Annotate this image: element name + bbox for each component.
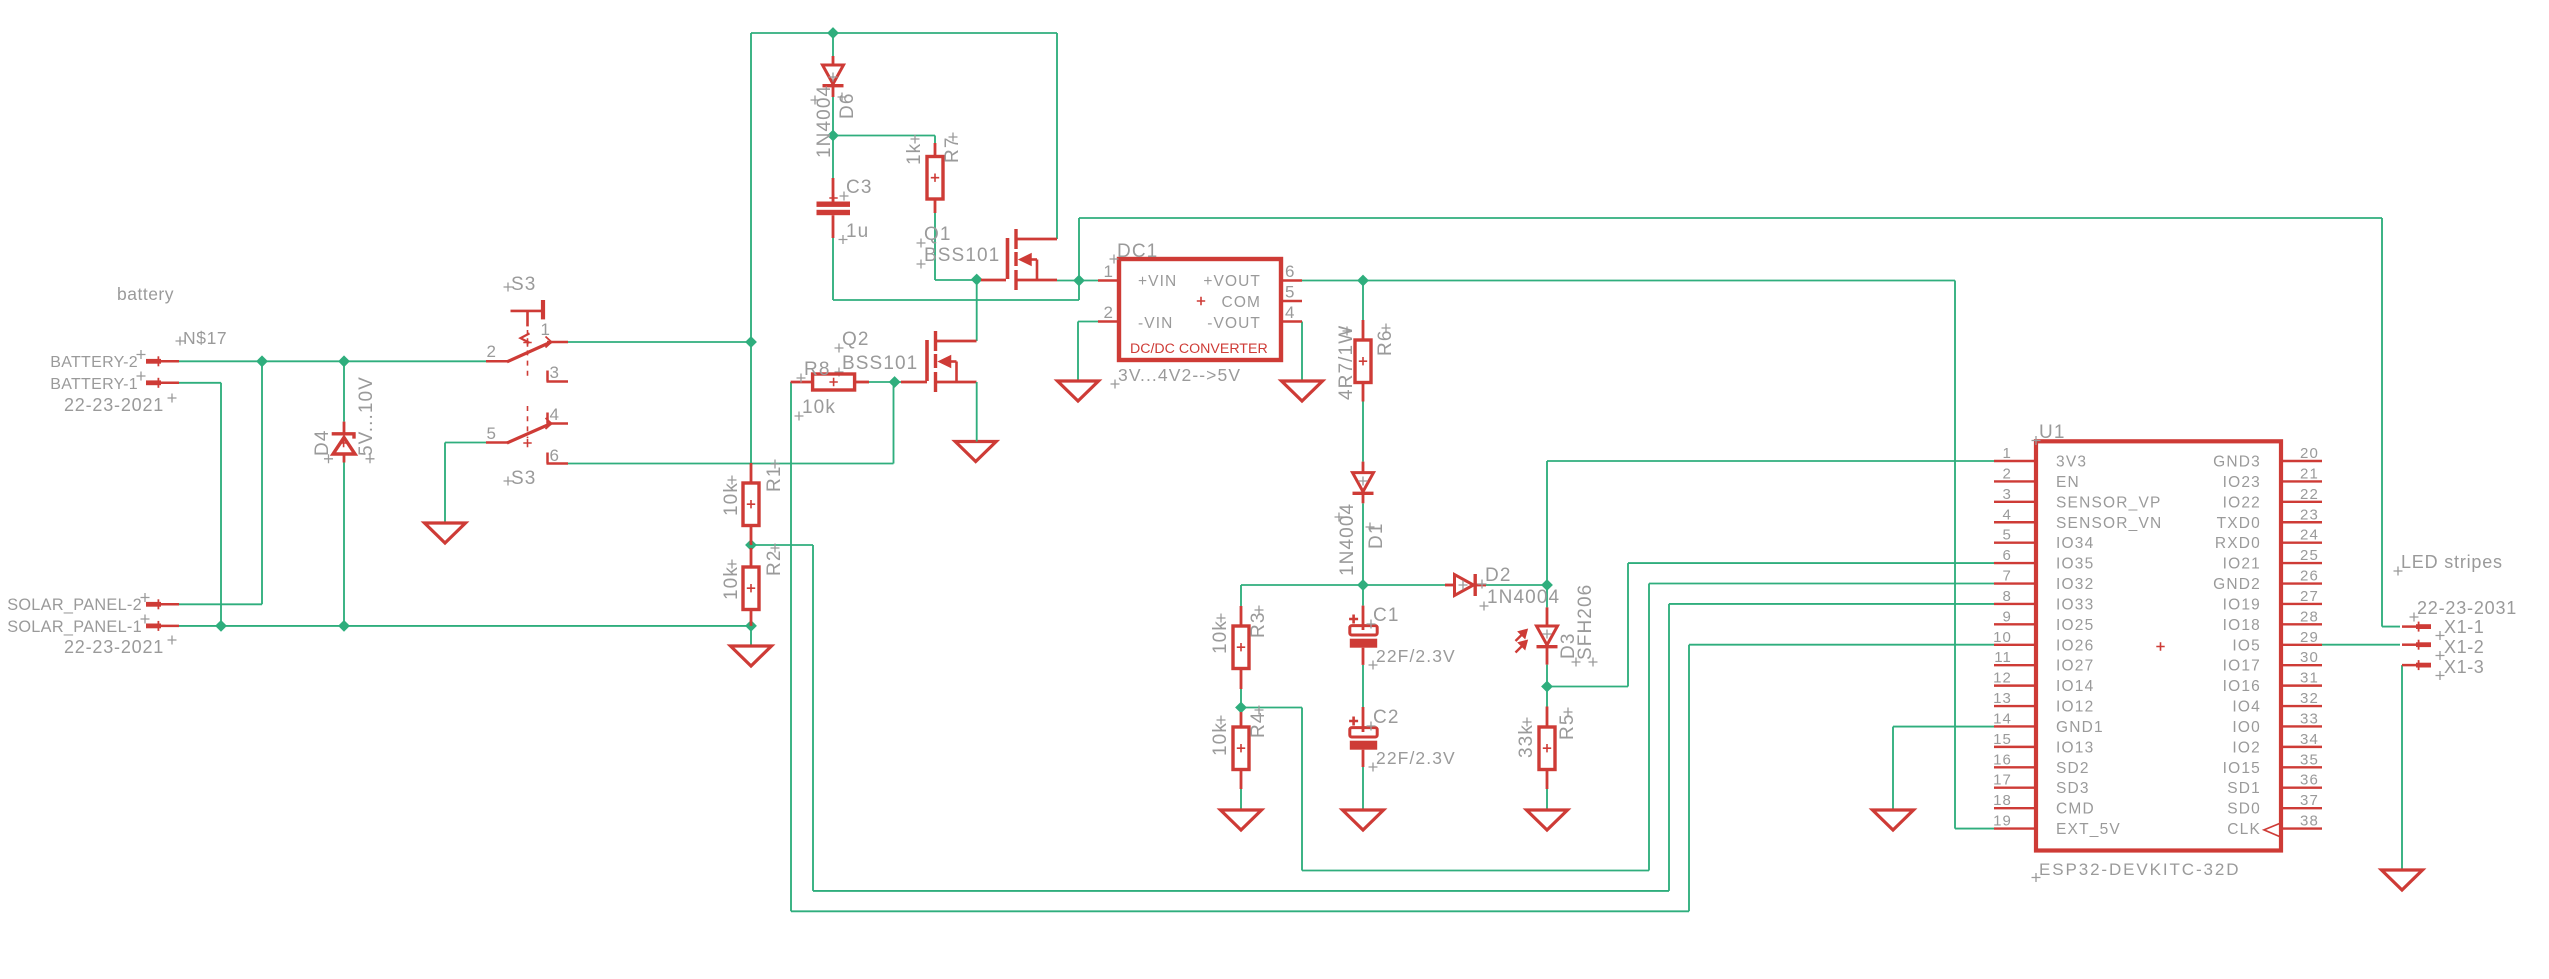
svg-text:ESP32-DEVKITC-32D: ESP32-DEVKITC-32D [2039, 860, 2240, 879]
wire solar1 rail [179, 625, 751, 627]
svg-text:29: 29 [2300, 629, 2319, 646]
resistor R5 [1546, 707, 1549, 728]
svg-text:SD1: SD1 [2227, 780, 2261, 797]
U1 pin 32 stub [2281, 705, 2322, 707]
pin BATTERY-2 [146, 359, 161, 364]
ground S3 pin5 [425, 523, 466, 543]
svg-text:CMD: CMD [2056, 801, 2095, 818]
svg-text:BSS101: BSS101 [924, 245, 1000, 266]
svg-text:IO32: IO32 [2056, 576, 2094, 593]
svg-text:10k: 10k [802, 397, 836, 418]
U1 pin 37 stub [2281, 807, 2322, 809]
wire Q1 drain riser [1056, 33, 1058, 239]
svg-text:31: 31 [2300, 670, 2319, 687]
wire S3 pin5 ground drop [444, 443, 446, 524]
svg-text:IO26: IO26 [2056, 637, 2094, 654]
ground R2 [731, 646, 772, 666]
switch S3 blade 2-1 [507, 342, 551, 362]
svg-text:10k: 10k [721, 482, 742, 516]
svg-text:1N4004: 1N4004 [1487, 587, 1560, 608]
wire gate row to Q1 [935, 279, 981, 281]
junction node S3-1 / R1 [746, 337, 756, 347]
pin SOLAR_PANEL-1 [146, 624, 161, 629]
svg-text:SOLAR_PANEL-1: SOLAR_PANEL-1 [7, 618, 142, 636]
svg-text:6: 6 [2003, 547, 2012, 564]
wire top rail [751, 32, 1057, 34]
diode D2 [1445, 584, 1455, 587]
switch S3 pin5 stub [486, 441, 508, 444]
svg-text:battery: battery [117, 284, 174, 304]
svg-text:IO2: IO2 [2232, 739, 2261, 756]
svg-text:GND3: GND3 [2213, 454, 2261, 471]
wire IO33 riser [1668, 604, 1670, 891]
wire R3 to junction [1240, 689, 1242, 708]
svg-text:Q1: Q1 [924, 224, 952, 245]
wire GND1 horizontal [1893, 726, 1994, 728]
U1 pin 27 stub [2281, 603, 2322, 605]
svg-text:S3: S3 [511, 274, 536, 295]
svg-text:8: 8 [2003, 588, 2012, 605]
wire R5 bottom [1546, 789, 1548, 810]
svg-text:D2: D2 [1485, 565, 1512, 586]
ground C2 [1343, 810, 1384, 830]
svg-text:15: 15 [1993, 731, 2012, 748]
ground X1-3 [2382, 870, 2423, 890]
diode D1 [1362, 462, 1365, 473]
svg-text:16: 16 [1993, 751, 2012, 768]
svg-text:2: 2 [2003, 465, 2012, 482]
pin BATTERY-1 [146, 380, 161, 385]
U1 pin 18 stub [1994, 807, 2036, 809]
svg-text:IO21: IO21 [2223, 556, 2261, 573]
wire +VIN top rail [1079, 217, 2382, 219]
svg-text:18: 18 [1993, 792, 2012, 809]
svg-text:SENSOR_VN: SENSOR_VN [2056, 515, 2162, 532]
wire junction to R7 [833, 135, 935, 137]
wire led supply drop [2381, 218, 2383, 627]
switch S3 origin top [523, 338, 531, 346]
resistor R4 [1240, 712, 1243, 727]
U1 pin 30 stub [2281, 664, 2322, 666]
wire S3 pin6 horizontal [568, 463, 894, 465]
U1 pin 35 stub [2281, 766, 2322, 768]
wire battery- horizontal [179, 382, 221, 384]
wire S3 pin1 to R1 column [568, 341, 751, 343]
svg-text:R5: R5 [1557, 714, 1578, 741]
resistor R3 [1240, 606, 1243, 626]
svg-text:IO15: IO15 [2223, 760, 2261, 777]
capacitor C1 [1362, 606, 1365, 630]
svg-text:20: 20 [2300, 445, 2319, 462]
junction node Q1 gate / Q2 drain [972, 274, 982, 284]
U1 pin 25 stub [2281, 562, 2322, 564]
svg-text:2: 2 [486, 342, 497, 361]
transistor Q1 [981, 279, 1006, 282]
switch S3 pin1 stub [547, 341, 568, 344]
svg-text:EXT_5V: EXT_5V [2056, 821, 2121, 838]
wire IO33 drop [812, 545, 814, 891]
svg-text:IO17: IO17 [2223, 658, 2261, 675]
svg-text:26: 26 [2300, 568, 2319, 585]
svg-text:1k: 1k [904, 143, 925, 165]
svg-text:22-23-2021: 22-23-2021 [64, 637, 164, 657]
wire Q2 source ground drop [976, 382, 978, 442]
svg-text:5: 5 [1285, 283, 1296, 302]
svg-text:R1: R1 [764, 466, 785, 493]
wire R6 top [1362, 281, 1364, 321]
junction node D2 / D3 / 3V3 [1542, 580, 1552, 590]
ground GND1 [1873, 810, 1914, 830]
svg-text:COM: COM [1222, 294, 1261, 311]
D3 light arrow 2 [1516, 645, 1524, 653]
pin SOLAR_PANEL-2 [146, 602, 161, 607]
wire battery+ rail [179, 360, 486, 362]
wire R8 right to gate [869, 381, 901, 383]
svg-text:R6: R6 [1375, 330, 1396, 357]
wire DC1 pin4 ground drop [1301, 322, 1303, 382]
svg-text:IO35: IO35 [2056, 556, 2094, 573]
svg-text:30: 30 [2300, 649, 2319, 666]
svg-text:10: 10 [1993, 629, 2012, 646]
wire R7 top lead [934, 136, 936, 144]
U1 pin 20 stub [2281, 460, 2322, 462]
wire solar2 riser [261, 361, 263, 604]
U1 pin 7 stub [1994, 582, 2036, 584]
U1 pin 24 stub [2281, 541, 2322, 543]
dc-dc converter DC1 box [1119, 259, 1281, 360]
junction node D1 / C1 / R3 / D2 [1358, 580, 1368, 590]
switch S3 pin6 stub [546, 453, 549, 464]
svg-text:10k: 10k [1210, 722, 1231, 756]
U1 pin 29 stub [2281, 644, 2322, 646]
svg-text:36: 36 [2300, 772, 2319, 789]
wire Q1 source to DC1 [1057, 280, 1100, 282]
wire C3 loop down [1078, 281, 1080, 301]
svg-text:3V...4V2-->5V: 3V...4V2-->5V [1118, 365, 1241, 385]
switch S3 origin bottom [523, 439, 531, 447]
svg-text:GND2: GND2 [2213, 576, 2261, 593]
wire +VOUT rail [1363, 280, 1955, 282]
U1 pin 26 stub [2281, 582, 2322, 584]
wire EXT_5V drop [1954, 281, 1956, 829]
svg-text:22: 22 [2300, 486, 2319, 503]
U1 pin 36 stub [2281, 787, 2322, 789]
wire +VIN riser [1078, 218, 1080, 281]
ground R5 [1527, 810, 1568, 830]
U1 pin 2 stub [1994, 480, 2036, 482]
DC1 pin5 stub [1281, 300, 1302, 302]
U1 origin cross [2156, 642, 2164, 650]
svg-text:1u: 1u [846, 221, 869, 242]
switch S3 chevron [521, 333, 530, 342]
svg-text:12: 12 [1993, 670, 2012, 687]
junction node R1 / R2 [746, 540, 756, 550]
svg-text:5: 5 [486, 424, 497, 443]
svg-text:+VIN: +VIN [1138, 273, 1177, 290]
svg-text:33: 33 [2300, 710, 2319, 727]
svg-text:D4: D4 [312, 430, 333, 457]
wire R4 bottom [1240, 789, 1242, 810]
svg-text:BSS101: BSS101 [842, 353, 918, 374]
svg-text:1: 1 [540, 320, 551, 339]
svg-text:3V3: 3V3 [2056, 454, 2087, 471]
U1 pin 4 stub [1994, 521, 2036, 523]
svg-text:R3: R3 [1248, 612, 1269, 639]
wire IO33 rail [813, 890, 1669, 892]
U1 pin 13 stub [1994, 705, 2036, 707]
svg-text:38: 38 [2300, 813, 2319, 830]
DC1 origin cross [1197, 297, 1205, 305]
svg-text:IO18: IO18 [2223, 617, 2261, 634]
wire D6 top [832, 33, 834, 56]
DC1 pin2 stub [1098, 320, 1119, 322]
svg-text:24: 24 [2300, 527, 2319, 544]
wire D4 top [343, 361, 345, 421]
svg-text:IO19: IO19 [2223, 596, 2261, 613]
wire X1-3 ground drop [2401, 665, 2403, 870]
svg-text:SOLAR_PANEL-2: SOLAR_PANEL-2 [7, 596, 142, 614]
svg-text:7: 7 [2003, 568, 2012, 585]
U1 pin 38 stub [2281, 827, 2322, 829]
switch S3 dashed link [527, 330, 529, 378]
svg-text:C1: C1 [1373, 605, 1400, 626]
svg-text:SD2: SD2 [2056, 760, 2090, 777]
U1 pin 10 stub [1994, 644, 2036, 646]
junction node R3 / R4 / IO32 [1236, 702, 1246, 712]
svg-text:6: 6 [1285, 262, 1296, 281]
switch S3 pin3 stub [546, 371, 549, 382]
wire battery- riser [220, 383, 222, 626]
U1 pin 12 stub [1994, 684, 2036, 686]
wire R3R4 junction right [1241, 707, 1302, 709]
wire C1 top [1362, 585, 1364, 606]
ground DC1 -VOUT [1282, 381, 1323, 401]
svg-text:1: 1 [1103, 262, 1114, 281]
wire IO33 horizontal [1669, 603, 1994, 605]
diode D3 [1546, 607, 1549, 626]
pin X1-3 [2416, 663, 2431, 668]
U1 pin 8 stub [1994, 603, 2036, 605]
ground R4 [1221, 810, 1262, 830]
wire IO26 rail [791, 910, 1689, 912]
svg-text:22-23-2031: 22-23-2031 [2417, 598, 2517, 618]
U1 pin 16 stub [1994, 766, 2036, 768]
svg-text:33k: 33k [1516, 724, 1537, 758]
wire EXT_5V horizontal [1955, 828, 1994, 830]
wire R8 left drop [790, 382, 792, 911]
svg-text:IO14: IO14 [2056, 678, 2094, 695]
svg-text:1N4004: 1N4004 [1337, 503, 1358, 576]
svg-text:IO23: IO23 [2223, 474, 2261, 491]
svg-text:+VOUT: +VOUT [1203, 273, 1261, 290]
wire C1 to C2 [1362, 665, 1364, 707]
wire Q2 gate riser [893, 382, 895, 464]
svg-text:34: 34 [2300, 731, 2319, 748]
svg-text:DC1: DC1 [1117, 241, 1158, 262]
diode D4 [343, 422, 346, 434]
U1 CLK clock marker [2264, 824, 2280, 837]
wire IO35 horizontal [1628, 562, 1994, 564]
U1 pin 15 stub [1994, 746, 2036, 748]
wire DC1 pin2 stub [1078, 321, 1100, 323]
switch S3 pin2 stub [486, 360, 508, 363]
junction node Q2 gate / R8 [889, 377, 899, 387]
resistor R7 [934, 143, 937, 157]
svg-text:R8: R8 [804, 359, 831, 380]
svg-text:RXD0: RXD0 [2215, 535, 2261, 552]
wire R6 to D1 [1362, 402, 1364, 462]
wire D3 junction right [1547, 686, 1628, 688]
svg-text:19: 19 [1993, 813, 2012, 830]
U1 pin 21 stub [2281, 480, 2322, 482]
svg-text:IO12: IO12 [2056, 699, 2094, 716]
wire C3 loop horizontal [833, 299, 1079, 301]
svg-text:27: 27 [2300, 588, 2319, 605]
svg-text:SENSOR_VP: SENSOR_VP [2056, 494, 2162, 511]
svg-text:IO34: IO34 [2056, 535, 2094, 552]
svg-text:X1-3: X1-3 [2444, 657, 2484, 677]
svg-text:IO5: IO5 [2232, 637, 2261, 654]
svg-text:4: 4 [1285, 303, 1296, 322]
resistor R8 [791, 381, 813, 384]
svg-text:SD0: SD0 [2227, 801, 2261, 818]
wire R2 to ground [750, 626, 752, 646]
wire IO5 to X1-2 [2322, 644, 2400, 646]
junction node D6 / C3 / R7 [828, 130, 838, 140]
svg-text:4: 4 [2003, 506, 2012, 523]
wire IO32 horizontal [1649, 583, 1994, 585]
U1 pin 33 stub [2281, 725, 2322, 727]
svg-text:C3: C3 [846, 177, 873, 198]
svg-text:IO33: IO33 [2056, 596, 2094, 613]
wire IO26 horizontal [1689, 644, 1994, 646]
wire IO26 riser [1688, 645, 1690, 912]
svg-text:2: 2 [1103, 303, 1114, 322]
junction node solar1 / D4 [339, 621, 349, 631]
svg-text:R4: R4 [1248, 712, 1269, 739]
svg-text:22-23-2021: 22-23-2021 [64, 395, 164, 415]
svg-text:TXD0: TXD0 [2217, 515, 2261, 532]
svg-text:BATTERY-2: BATTERY-2 [50, 354, 138, 371]
pin X1-2 [2416, 642, 2431, 647]
resistor R2 [750, 548, 753, 567]
U1 pin 31 stub [2281, 684, 2322, 686]
svg-text:32: 32 [2300, 690, 2319, 707]
svg-text:10k: 10k [1210, 620, 1231, 654]
svg-text:SFH206: SFH206 [1575, 584, 1596, 660]
svg-text:Q2: Q2 [842, 329, 870, 350]
wire top-left riser [750, 33, 752, 342]
svg-text:-VOUT: -VOUT [1207, 315, 1261, 332]
svg-text:IO27: IO27 [2056, 658, 2094, 675]
wire DC1 pin2 ground drop [1077, 322, 1079, 382]
U1 pin 28 stub [2281, 623, 2322, 625]
svg-text:BATTERY-1: BATTERY-1 [50, 376, 138, 393]
svg-text:5: 5 [2003, 527, 2012, 544]
junction node +VIN [1074, 275, 1084, 285]
svg-text:N$17: N$17 [183, 328, 227, 348]
svg-text:25: 25 [2300, 547, 2319, 564]
wire Q2 drain riser [976, 280, 978, 341]
junction node battery+ / solar2 [257, 356, 267, 366]
svg-text:DC/DC CONVERTER: DC/DC CONVERTER [1130, 341, 1268, 357]
U1 pin 5 stub [1994, 541, 2036, 543]
ESP32 U1 box [2036, 441, 2281, 850]
switch S3 blade 5-4 [507, 424, 551, 444]
wire R3 top drop [1240, 585, 1242, 606]
DC1 pin1 stub [1098, 279, 1119, 281]
wire D2 out [1486, 584, 1547, 586]
wire C3 top [832, 136, 834, 179]
svg-text:5V...10V: 5V...10V [356, 376, 377, 456]
junction node +VOUT / R6 [1358, 275, 1368, 285]
svg-text:6: 6 [549, 446, 560, 465]
resistor R6 [1362, 320, 1365, 340]
junction node battery+ / D4 [339, 356, 349, 366]
svg-text:22F/2.3V: 22F/2.3V [1376, 646, 1456, 666]
svg-text:IO0: IO0 [2232, 719, 2261, 736]
resistor R1 [750, 463, 753, 483]
svg-text:IO25: IO25 [2056, 617, 2094, 634]
svg-text:C2: C2 [1373, 707, 1400, 728]
svg-text:CLK: CLK [2227, 821, 2261, 838]
wire IO32 rail [1302, 870, 1649, 872]
svg-text:3: 3 [2003, 486, 2012, 503]
svg-text:IO16: IO16 [2223, 678, 2261, 695]
wire R5 top [1546, 687, 1548, 707]
wire C3 bottom [832, 238, 834, 300]
svg-text:1: 1 [2003, 445, 2012, 462]
diode D6 [832, 56, 835, 65]
capacitor C3 [832, 178, 835, 202]
svg-text:IO13: IO13 [2056, 739, 2094, 756]
U1 pin 6 stub [1994, 562, 2036, 564]
wire IO35 riser [1627, 563, 1629, 686]
svg-text:22F/2.3V: 22F/2.3V [1376, 748, 1456, 768]
wire D6 bottom to junction [832, 97, 834, 136]
switch S3 actuator [511, 310, 544, 313]
wire +VOUT to R6 junction [1300, 280, 1363, 282]
svg-text:9: 9 [2003, 608, 2012, 625]
wire 3V3 riser [1546, 461, 1548, 585]
junction node battery- / solar1 [216, 621, 226, 631]
wire C2 bottom [1362, 767, 1364, 810]
U1 pin 9 stub [1994, 623, 2036, 625]
pin X1-1 [2416, 624, 2431, 629]
svg-text:X1-1: X1-1 [2444, 617, 2484, 637]
svg-text:EN: EN [2056, 474, 2080, 491]
U1 pin 14 stub [1994, 725, 2036, 727]
svg-text:3: 3 [549, 363, 560, 382]
svg-text:23: 23 [2300, 506, 2319, 523]
svg-text:35: 35 [2300, 751, 2319, 768]
U1 pin 23 stub [2281, 521, 2322, 523]
U1 pin 11 stub [1994, 664, 2036, 666]
svg-text:4: 4 [549, 405, 560, 424]
DC1 pin6 stub [1281, 279, 1302, 281]
junction node top rail / D6 [828, 28, 838, 38]
wire R1 column down [750, 342, 752, 463]
svg-text:S3: S3 [511, 468, 536, 489]
wire D3 anode [1546, 585, 1548, 607]
U1 pin 34 stub [2281, 746, 2322, 748]
svg-text:10k: 10k [721, 566, 742, 600]
svg-text:LED stripes: LED stripes [2401, 552, 2503, 572]
wire S3 pin5 horizontal [445, 442, 486, 444]
U1 pin 17 stub [1994, 787, 2036, 789]
D3 light arrow 1 [1516, 634, 1524, 642]
wire GND1 drop [1892, 727, 1894, 810]
